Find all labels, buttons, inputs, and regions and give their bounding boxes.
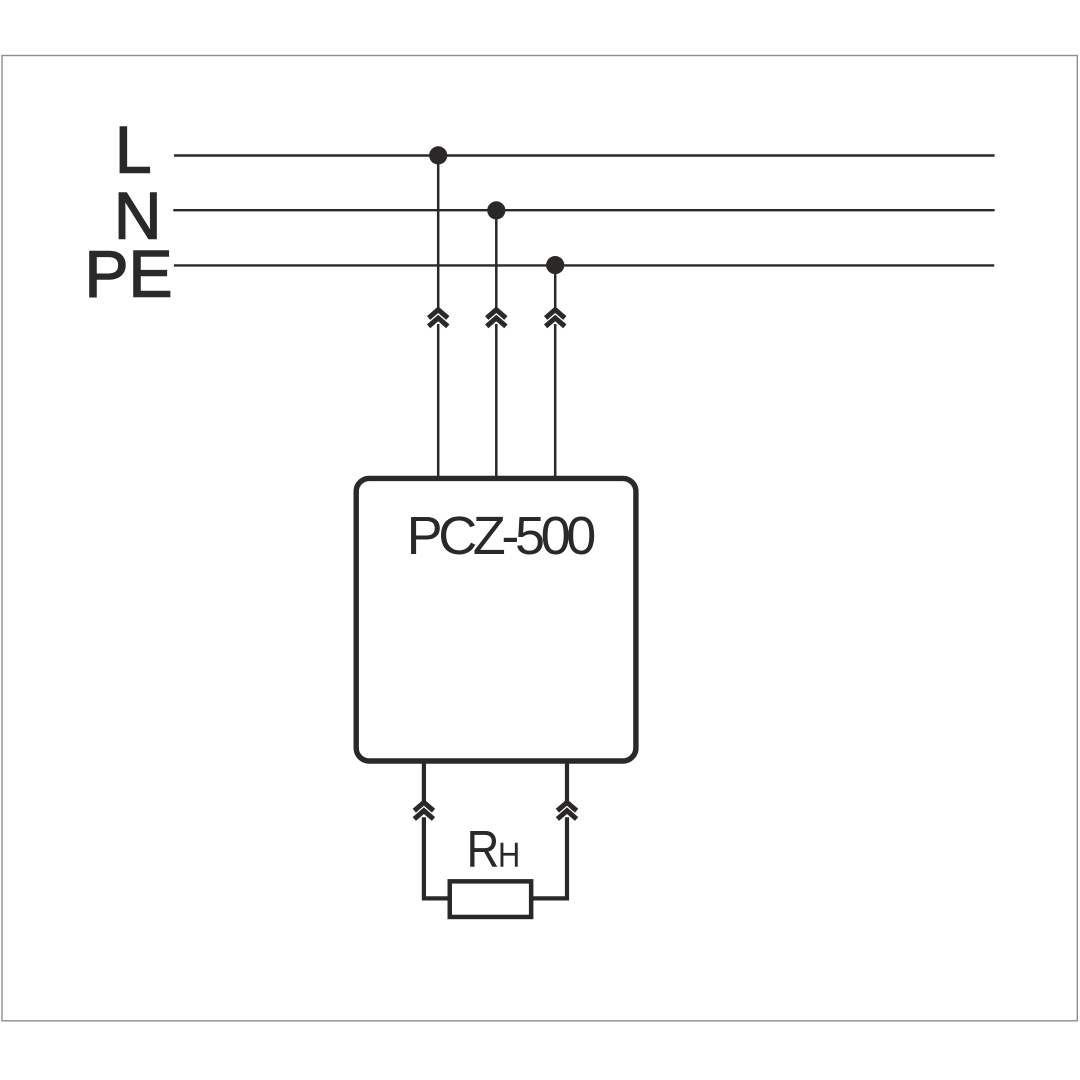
svg-text:L: L	[115, 113, 152, 187]
svg-text:PE: PE	[85, 237, 173, 311]
svg-text:PCZ-500: PCZ-500	[407, 506, 595, 566]
